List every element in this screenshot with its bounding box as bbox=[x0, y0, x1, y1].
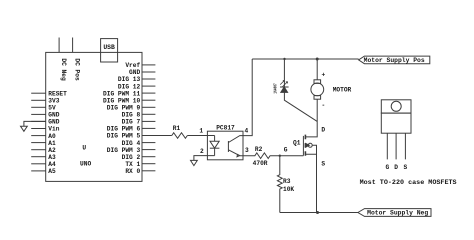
svg-text:R3: R3 bbox=[283, 178, 291, 185]
svg-text:DIG 4: DIG 4 bbox=[122, 140, 141, 147]
svg-text:DIG 7: DIG 7 bbox=[122, 119, 141, 126]
svg-text:Most TO-220 case MOSFETS: Most TO-220 case MOSFETS bbox=[360, 179, 457, 186]
svg-text:RESET: RESET bbox=[48, 90, 67, 97]
svg-text:Motor Supply Neg: Motor Supply Neg bbox=[367, 210, 428, 217]
svg-text:GND: GND bbox=[48, 119, 59, 126]
svg-text:3: 3 bbox=[245, 147, 249, 154]
svg-text:1N4007: 1N4007 bbox=[273, 83, 279, 94]
svg-text:D: D bbox=[321, 127, 325, 134]
svg-text:Vref: Vref bbox=[125, 62, 140, 69]
svg-text:DIG PWM 6: DIG PWM 6 bbox=[107, 126, 141, 133]
svg-text:PC817: PC817 bbox=[216, 125, 235, 132]
svg-text:GND: GND bbox=[48, 112, 59, 119]
svg-text:DIG 12: DIG 12 bbox=[118, 83, 141, 90]
svg-text:2: 2 bbox=[200, 148, 204, 155]
svg-text:DIG PWM 9: DIG PWM 9 bbox=[107, 104, 141, 111]
svg-text:+: + bbox=[322, 71, 326, 78]
svg-text:A1: A1 bbox=[48, 140, 56, 147]
svg-text:DIG PWM 5: DIG PWM 5 bbox=[107, 133, 141, 140]
svg-text:-: - bbox=[322, 102, 326, 109]
svg-text:Vin: Vin bbox=[48, 126, 59, 133]
svg-text:DIG PWM 10: DIG PWM 10 bbox=[103, 97, 140, 104]
svg-text:5V: 5V bbox=[48, 105, 56, 112]
svg-text:DIG 13: DIG 13 bbox=[118, 76, 141, 83]
svg-text:R2: R2 bbox=[255, 146, 263, 153]
svg-text:1: 1 bbox=[199, 127, 203, 134]
svg-text:470R: 470R bbox=[253, 160, 268, 167]
svg-text:DC Pos: DC Pos bbox=[73, 58, 80, 81]
svg-text:G: G bbox=[385, 164, 389, 171]
svg-text:A3: A3 bbox=[48, 154, 56, 161]
svg-text:TX 1: TX 1 bbox=[125, 161, 140, 168]
svg-text:G: G bbox=[284, 147, 288, 154]
svg-text:A4: A4 bbox=[48, 161, 56, 168]
svg-text:U: U bbox=[82, 145, 86, 152]
svg-text:4: 4 bbox=[244, 128, 248, 135]
svg-text:USB: USB bbox=[103, 44, 115, 51]
svg-text:A5: A5 bbox=[48, 168, 56, 175]
svg-text:DIG PWM 11: DIG PWM 11 bbox=[103, 90, 140, 97]
svg-text:10K: 10K bbox=[283, 186, 294, 193]
svg-text:DC Neg: DC Neg bbox=[60, 58, 67, 81]
svg-text:DIG 2: DIG 2 bbox=[122, 154, 141, 161]
svg-text:Motor Supply Pos: Motor Supply Pos bbox=[364, 57, 425, 64]
svg-text:A2: A2 bbox=[48, 147, 56, 154]
svg-text:UNO: UNO bbox=[80, 160, 91, 167]
svg-text:MOTOR: MOTOR bbox=[333, 87, 352, 94]
svg-text:3V3: 3V3 bbox=[48, 97, 59, 104]
svg-text:GND: GND bbox=[129, 69, 140, 76]
svg-text:R1: R1 bbox=[173, 125, 181, 132]
svg-text:S: S bbox=[321, 160, 325, 167]
svg-text:Q1: Q1 bbox=[293, 139, 301, 146]
svg-text:D: D bbox=[394, 164, 398, 171]
svg-text:S: S bbox=[404, 164, 408, 171]
svg-text:DIG 8: DIG 8 bbox=[122, 112, 141, 119]
svg-text:DIG PWM 3: DIG PWM 3 bbox=[107, 147, 141, 154]
svg-text:A0: A0 bbox=[48, 133, 56, 140]
svg-text:RX 0: RX 0 bbox=[125, 168, 140, 175]
